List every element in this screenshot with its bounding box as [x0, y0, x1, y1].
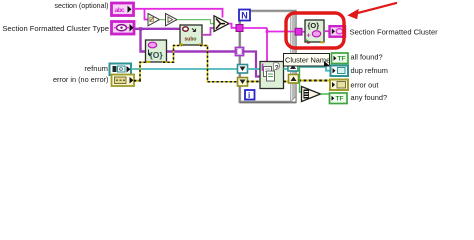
svg-text:refnum: refnum	[84, 64, 108, 73]
annotation red circle	[286, 13, 344, 48]
wire error up to VI1	[140, 62, 147, 80]
wire refnum VI3 to SR right	[284, 67, 289, 69]
terminal error in	[112, 75, 135, 87]
wire string top	[134, 9, 223, 18]
right edge 3d bar	[291, 12, 297, 102]
tunnel cluster out right	[295, 28, 302, 35]
subVI U2 open/dup config	[180, 25, 202, 45]
tunnel string in	[236, 25, 243, 32]
wire refnum	[131, 68, 238, 70]
terminal Section Formatted Cluster	[330, 26, 346, 37]
wire string branch to empty-check	[145, 9, 149, 20]
shift register error left	[238, 78, 248, 87]
svg-text:Section Formatted Cluster: Section Formatted Cluster	[350, 28, 439, 37]
svg-text:abc: abc	[115, 7, 125, 14]
annotation red arrow	[347, 3, 397, 19]
i iteration terminal	[245, 90, 255, 100]
wire error VI3 to SR right	[284, 81, 289, 83]
svg-text:any found?: any found?	[351, 93, 388, 102]
N count terminal	[239, 10, 250, 21]
shift register error right	[289, 75, 299, 84]
wire error out to terminal	[299, 80, 331, 82]
terminal Section Formatted Cluster Type	[112, 22, 135, 35]
svg-text:section (optional): section (optional)	[54, 2, 108, 10]
svg-text:i: i	[248, 91, 250, 100]
shift register refnum left	[238, 65, 248, 74]
wire string branch down to VI3	[266, 28, 268, 62]
svg-text:{O}: {O}	[308, 21, 320, 30]
wire cluster to VI4	[302, 31, 306, 33]
wire bool t1-t2	[160, 19, 166, 21]
wire cluster type	[134, 28, 180, 30]
comparison triangle not	[166, 14, 178, 26]
svg-text:+: +	[306, 30, 311, 39]
wire cluster VI4 to indicator	[324, 30, 329, 32]
svg-text:error in (no error): error in (no error)	[53, 75, 109, 84]
wire bool to select	[177, 20, 214, 24]
wire cluster type down to VI1	[141, 29, 146, 52]
svg-text:dup refnum: dup refnum	[351, 66, 388, 75]
terminal dup refnum	[331, 66, 349, 77]
terminal section (optional)	[112, 3, 134, 16]
corner notch	[291, 97, 296, 102]
wire boolean down to gate	[300, 66, 302, 92]
tunnel cluster type	[236, 48, 244, 56]
terminal any found?	[330, 93, 348, 104]
subVI U1 get type	[146, 40, 167, 63]
svg-text:error out: error out	[351, 80, 379, 89]
wire error VI2 error-out drop	[200, 46, 238, 82]
svg-text:?: ?	[275, 64, 279, 71]
wire error inside loop	[247, 81, 260, 83]
wire boolean gate to terminal	[321, 93, 330, 95]
svg-text:TF: TF	[336, 96, 344, 103]
svg-text:Cluster Name: Cluster Name	[285, 56, 330, 65]
svg-text:all found?: all found?	[351, 52, 383, 61]
wire string inside loop	[243, 27, 267, 29]
subVI U3 find section	[260, 62, 284, 89]
or-array gate	[302, 87, 321, 102]
terminal all found?	[332, 53, 349, 64]
shift register refnum right	[288, 63, 298, 72]
svg-text:subo: subo	[185, 37, 197, 43]
loop border shading	[240, 102, 296, 104]
wire select out to loop tunnel	[229, 24, 236, 28]
wire error main run	[134, 80, 141, 82]
wire refnum inside loop	[247, 68, 260, 70]
terminal error out	[330, 80, 348, 91]
subVI U4 bundle convert	[305, 20, 324, 44]
svg-text:N: N	[241, 10, 248, 20]
svg-text:TF: TF	[338, 56, 346, 63]
wire subVI out to select	[202, 28, 214, 35]
for loop border	[240, 11, 296, 103]
label Cluster Name	[284, 54, 331, 67]
wire cluster type inside loop	[244, 52, 261, 77]
wire error VI2 error-in drop	[163, 46, 182, 63]
comparison triangle empty-string	[148, 14, 160, 26]
svg-text:Section Formatted Cluster Type: Section Formatted Cluster Type	[2, 24, 109, 33]
junction	[139, 27, 142, 30]
wire cluster type VI1 to tunnel	[167, 50, 237, 53]
svg-text:{O}: {O}	[150, 50, 164, 60]
select node	[214, 16, 229, 32]
wire refnum out to terminal	[298, 67, 331, 71]
terminal refnum	[110, 64, 132, 76]
